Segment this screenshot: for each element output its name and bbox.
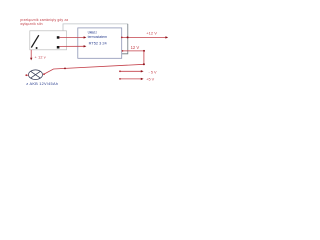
svg-text:RT52 3 24: RT52 3 24 <box>89 41 108 46</box>
svg-text:+5 V: +5 V <box>146 78 154 82</box>
svg-text:termostatem: termostatem <box>88 35 108 39</box>
svg-text:- 5 V: - 5 V <box>149 70 157 74</box>
svg-text:z AKB 12V/45Ah: z AKB 12V/45Ah <box>26 81 58 86</box>
svg-text:+12 V: +12 V <box>146 30 157 35</box>
svg-text:+ 12 v: + 12 v <box>35 55 46 59</box>
svg-text:12 V: 12 V <box>131 45 140 50</box>
svg-text:wyłącznik siln: wyłącznik siln <box>20 22 43 26</box>
